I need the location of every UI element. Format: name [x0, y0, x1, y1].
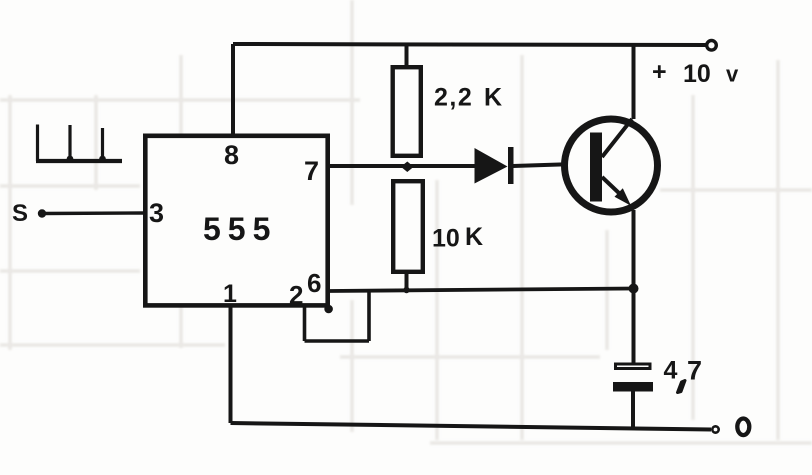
capacitor C1 [613, 364, 653, 428]
resistor R1 2,2K top lead wire [405, 44, 409, 66]
svg-text:6: 6 [307, 268, 321, 298]
svg-text:2,2: 2,2 [434, 84, 473, 112]
resistor R1 2,2K body [393, 67, 421, 156]
wire pin 8 to +V rail [231, 44, 235, 134]
wire pin 1 to 0 rail [229, 306, 233, 423]
node S terminal dot [38, 209, 46, 217]
input pulse waveform symbol [36, 125, 122, 163]
wire +10V top rail [233, 44, 706, 45]
svg-text:+: + [652, 58, 667, 86]
svg-text:1: 1 [223, 280, 237, 308]
wire pin 6 run [329, 289, 634, 292]
wire S to pin 3 [42, 211, 145, 215]
svg-text:7: 7 [304, 156, 319, 186]
svg-text:K: K [465, 223, 483, 251]
svg-text:10: 10 [683, 60, 711, 88]
node junction dot emitter/pin6 [629, 284, 639, 294]
diode D1 [475, 147, 514, 184]
svg-text:3: 3 [149, 198, 164, 228]
wire 0V bottom rail [231, 423, 712, 430]
wire pin 7 run to diode [329, 164, 476, 168]
wire pin 2 loop [305, 290, 370, 341]
svg-text:7: 7 [687, 356, 702, 386]
label 0 [737, 419, 749, 436]
svg-text:10: 10 [432, 225, 460, 253]
svg-text:S: S [12, 200, 28, 227]
wire diode to base [513, 164, 591, 167]
op IC U1 555 box [145, 136, 327, 306]
transistor Q1 [565, 119, 658, 212]
terminal 0V [712, 426, 718, 432]
svg-text:555: 555 [203, 211, 277, 247]
svg-text:8: 8 [224, 140, 239, 170]
wire collector to +V rail [632, 45, 636, 119]
svg-text:v: v [726, 62, 739, 87]
node junction diamond between R1 and R2 [401, 162, 414, 173]
svg-text:2: 2 [289, 280, 303, 310]
svg-text:K: K [484, 84, 502, 112]
node junction dot at R2 bottom [403, 287, 409, 293]
svg-text:4: 4 [664, 357, 678, 385]
resistor R2 10K body [393, 181, 423, 272]
wire emitter down [632, 210, 636, 363]
terminal +10V [707, 41, 717, 51]
node dot at pin 2 corner [324, 305, 333, 314]
resistor R2 bottom lead wire [405, 274, 409, 290]
